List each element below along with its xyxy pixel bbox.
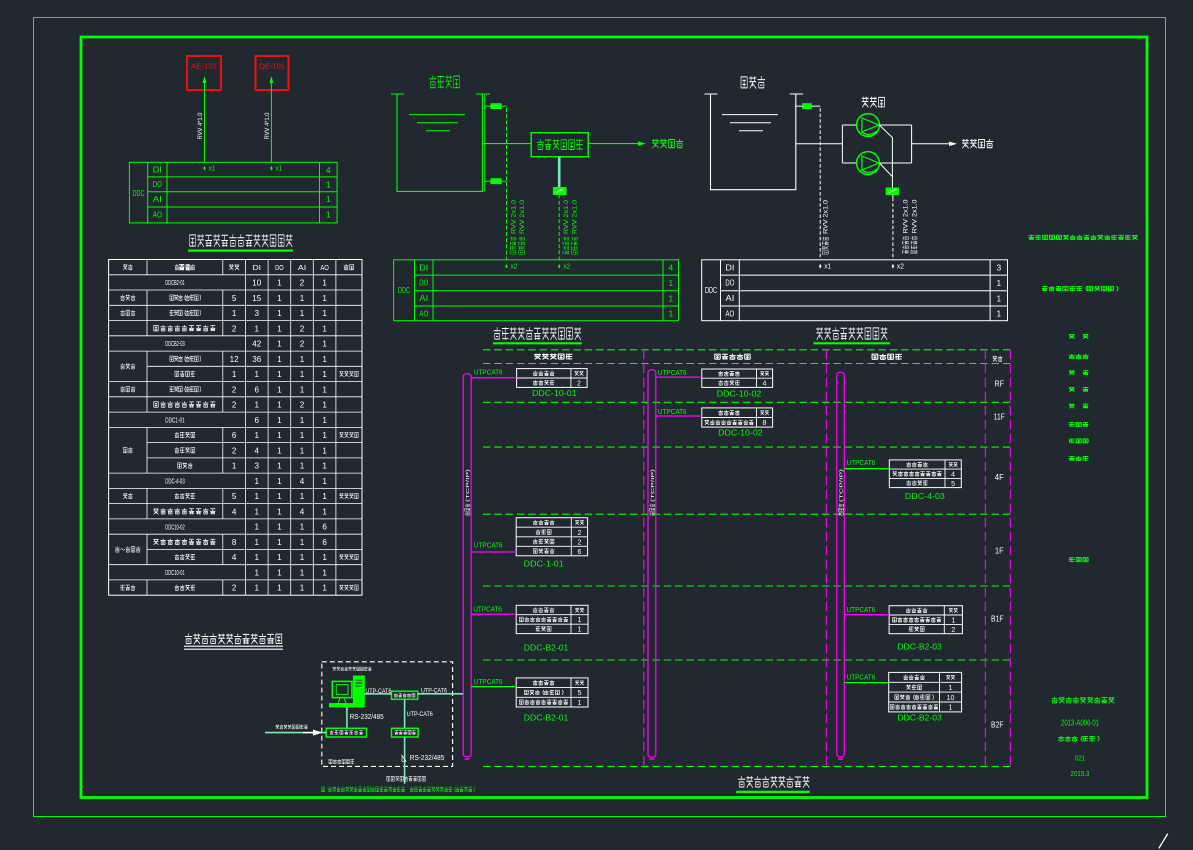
svg-text:1: 1 bbox=[326, 194, 331, 204]
svg-text:4: 4 bbox=[763, 379, 767, 388]
svg-text:RVV 2x1.0: RVV 2x1.0 bbox=[510, 200, 517, 234]
svg-text:1: 1 bbox=[996, 309, 1001, 319]
svg-text:1: 1 bbox=[578, 698, 582, 707]
svg-text:UTPCAT6: UTPCAT6 bbox=[847, 672, 876, 681]
svg-text:5: 5 bbox=[232, 491, 237, 501]
svg-text:DDC-10-02: DDC-10-02 bbox=[718, 427, 763, 437]
svg-text:x2: x2 bbox=[563, 263, 570, 270]
svg-text:1: 1 bbox=[277, 491, 282, 501]
svg-text:AO: AO bbox=[419, 310, 428, 319]
svg-text:4: 4 bbox=[300, 506, 305, 516]
svg-text:6: 6 bbox=[232, 430, 237, 440]
svg-text:1: 1 bbox=[255, 537, 260, 547]
svg-text:2: 2 bbox=[578, 537, 582, 546]
svg-text:DI: DI bbox=[153, 166, 162, 175]
svg-text:UTPCAT6: UTPCAT6 bbox=[474, 677, 503, 686]
svg-text:DDC: DDC bbox=[398, 286, 410, 295]
svg-text:UTPCAT6: UTPCAT6 bbox=[847, 458, 876, 467]
svg-text:1: 1 bbox=[277, 522, 282, 532]
svg-text:1: 1 bbox=[255, 430, 260, 440]
svg-text:UTPCAT6: UTPCAT6 bbox=[474, 368, 503, 377]
svg-text:AI: AI bbox=[298, 263, 307, 272]
svg-text:DDC1-01: DDC1-01 bbox=[165, 416, 185, 425]
svg-text:1: 1 bbox=[322, 461, 327, 471]
svg-text:DI: DI bbox=[253, 263, 262, 272]
svg-text:3: 3 bbox=[255, 461, 260, 471]
svg-text:1: 1 bbox=[255, 491, 260, 501]
svg-text:4: 4 bbox=[300, 476, 305, 486]
svg-text:1: 1 bbox=[255, 400, 260, 410]
svg-text:36: 36 bbox=[252, 354, 261, 364]
svg-text:1: 1 bbox=[277, 445, 282, 455]
svg-text:1: 1 bbox=[322, 506, 327, 516]
svg-text:1: 1 bbox=[322, 568, 327, 578]
svg-text:1: 1 bbox=[949, 683, 953, 692]
svg-text:RVV 4*1.0: RVV 4*1.0 bbox=[264, 112, 271, 140]
svg-text:AE-101: AE-101 bbox=[191, 61, 217, 70]
svg-text:1: 1 bbox=[255, 506, 260, 516]
svg-text:1: 1 bbox=[300, 583, 305, 593]
svg-text:1: 1 bbox=[277, 278, 282, 288]
svg-text:1: 1 bbox=[277, 537, 282, 547]
svg-text:8: 8 bbox=[232, 537, 237, 547]
svg-text:UTP-CAT6: UTP-CAT6 bbox=[365, 688, 391, 695]
svg-text:DO: DO bbox=[725, 279, 734, 288]
svg-text:3: 3 bbox=[996, 263, 1001, 273]
svg-text:DO: DO bbox=[275, 263, 284, 272]
svg-text:1: 1 bbox=[277, 369, 282, 379]
svg-text:1: 1 bbox=[322, 552, 327, 562]
svg-text:RVV 2x1.0: RVV 2x1.0 bbox=[572, 200, 579, 234]
svg-text:4: 4 bbox=[326, 165, 331, 175]
svg-text:x2: x2 bbox=[897, 263, 904, 270]
svg-text:DDC-4-03: DDC-4-03 bbox=[165, 477, 185, 486]
svg-text:DDC-10-01: DDC-10-01 bbox=[532, 388, 577, 398]
svg-text:2: 2 bbox=[300, 278, 305, 288]
svg-text:1: 1 bbox=[322, 384, 327, 394]
svg-text:1: 1 bbox=[300, 430, 305, 440]
svg-text:DDC10-02: DDC10-02 bbox=[165, 522, 185, 531]
svg-text:1: 1 bbox=[996, 278, 1001, 288]
svg-text:DDC-1-01: DDC-1-01 bbox=[524, 558, 564, 568]
svg-text:DDC-B2-03: DDC-B2-03 bbox=[897, 713, 942, 723]
svg-text:2: 2 bbox=[232, 583, 237, 593]
svg-text:4: 4 bbox=[232, 506, 237, 516]
svg-text:AI: AI bbox=[725, 294, 734, 303]
svg-text:B1F: B1F bbox=[991, 614, 1004, 624]
svg-text:6: 6 bbox=[322, 537, 327, 547]
svg-text:2015.3: 2015.3 bbox=[1071, 771, 1090, 778]
svg-text:UTPCAT6: UTPCAT6 bbox=[474, 541, 503, 550]
svg-text:2: 2 bbox=[577, 379, 581, 388]
svg-text:1: 1 bbox=[300, 491, 305, 501]
svg-text:DDC: DDC bbox=[133, 189, 145, 198]
svg-text:4F: 4F bbox=[995, 472, 1004, 482]
svg-text:1: 1 bbox=[322, 415, 327, 425]
svg-text:1: 1 bbox=[255, 583, 260, 593]
svg-text:1: 1 bbox=[322, 445, 327, 455]
svg-text:DDC: DDC bbox=[705, 286, 717, 295]
svg-text:1: 1 bbox=[322, 430, 327, 440]
svg-text:4: 4 bbox=[668, 263, 673, 273]
svg-text:1: 1 bbox=[277, 354, 282, 364]
svg-text:2: 2 bbox=[300, 339, 305, 349]
svg-text:(TCP/IP): (TCP/IP) bbox=[838, 468, 843, 502]
svg-text:10: 10 bbox=[947, 693, 955, 702]
svg-text:RVV 2x1.0: RVV 2x1.0 bbox=[823, 200, 830, 234]
svg-text:1: 1 bbox=[277, 400, 282, 410]
svg-text:DO: DO bbox=[153, 180, 162, 189]
svg-text:QE-101: QE-101 bbox=[259, 61, 285, 70]
svg-text:1: 1 bbox=[255, 568, 260, 578]
svg-text:5: 5 bbox=[578, 688, 582, 697]
svg-text:1: 1 bbox=[255, 552, 260, 562]
svg-text:6: 6 bbox=[255, 415, 260, 425]
svg-text:1: 1 bbox=[322, 354, 327, 364]
svg-text:2: 2 bbox=[232, 384, 237, 394]
svg-text:DDC-B2-01: DDC-B2-01 bbox=[524, 713, 569, 723]
svg-text:1: 1 bbox=[277, 583, 282, 593]
svg-text:1: 1 bbox=[300, 354, 305, 364]
svg-text:1: 1 bbox=[255, 323, 260, 333]
svg-text:42: 42 bbox=[252, 339, 261, 349]
svg-text:(TCP/IP): (TCP/IP) bbox=[465, 468, 470, 502]
svg-text:5: 5 bbox=[951, 479, 955, 488]
svg-text:1: 1 bbox=[277, 568, 282, 578]
svg-text:1F: 1F bbox=[995, 546, 1004, 556]
svg-text:DDC-10-02: DDC-10-02 bbox=[717, 388, 762, 398]
svg-text:1: 1 bbox=[326, 210, 331, 220]
svg-text:15: 15 bbox=[252, 293, 261, 303]
svg-text:DDCB2-01: DDCB2-01 bbox=[165, 278, 185, 287]
svg-text:1: 1 bbox=[322, 476, 327, 486]
svg-text:1: 1 bbox=[949, 703, 953, 712]
svg-text:1: 1 bbox=[255, 522, 260, 532]
svg-text:2: 2 bbox=[578, 528, 582, 537]
svg-text:1: 1 bbox=[277, 461, 282, 471]
svg-text:6: 6 bbox=[322, 522, 327, 532]
svg-text:RVV 2x1.0: RVV 2x1.0 bbox=[903, 199, 910, 233]
svg-text:RVV 2x1.0: RVV 2x1.0 bbox=[563, 200, 570, 234]
svg-text:RVV 2x1.0: RVV 2x1.0 bbox=[519, 200, 526, 234]
svg-text:1: 1 bbox=[300, 369, 305, 379]
svg-text:1: 1 bbox=[578, 625, 582, 634]
svg-text:1: 1 bbox=[300, 552, 305, 562]
svg-text:RVV 2x1.0: RVV 2x1.0 bbox=[911, 199, 918, 233]
svg-text:12: 12 bbox=[230, 354, 239, 364]
svg-text:1: 1 bbox=[300, 293, 305, 303]
svg-text:5: 5 bbox=[232, 293, 237, 303]
svg-text:2: 2 bbox=[232, 323, 237, 333]
svg-text:1: 1 bbox=[322, 400, 327, 410]
svg-text:2013-A006-01: 2013-A006-01 bbox=[1061, 718, 1099, 727]
svg-text:RS-232/485: RS-232/485 bbox=[350, 714, 384, 721]
svg-text:1: 1 bbox=[300, 445, 305, 455]
svg-text:DDC10-01: DDC10-01 bbox=[165, 568, 185, 577]
svg-text:6: 6 bbox=[255, 384, 260, 394]
svg-text:1: 1 bbox=[232, 461, 237, 471]
svg-text:2: 2 bbox=[232, 400, 237, 410]
svg-text:1: 1 bbox=[578, 615, 582, 624]
svg-text:1: 1 bbox=[996, 293, 1001, 303]
svg-text:021: 021 bbox=[1075, 755, 1085, 762]
svg-text:1: 1 bbox=[300, 308, 305, 318]
svg-text:1: 1 bbox=[300, 522, 305, 532]
svg-text:1: 1 bbox=[322, 308, 327, 318]
svg-text:1: 1 bbox=[300, 415, 305, 425]
svg-text:1: 1 bbox=[322, 278, 327, 288]
svg-text:1: 1 bbox=[255, 369, 260, 379]
svg-text:1: 1 bbox=[277, 339, 282, 349]
svg-text:10: 10 bbox=[252, 278, 261, 288]
svg-text:4: 4 bbox=[255, 445, 260, 455]
svg-text:UTP-CAT6: UTP-CAT6 bbox=[407, 711, 433, 718]
svg-text:1: 1 bbox=[232, 308, 237, 318]
svg-text:x2: x2 bbox=[511, 263, 518, 270]
svg-text:1: 1 bbox=[277, 476, 282, 486]
svg-text:1: 1 bbox=[322, 583, 327, 593]
svg-text:1: 1 bbox=[277, 415, 282, 425]
svg-text:RS-232/485: RS-232/485 bbox=[410, 755, 445, 762]
svg-text:1: 1 bbox=[300, 537, 305, 547]
svg-text:DDC-B2-01: DDC-B2-01 bbox=[524, 642, 569, 652]
svg-text:6: 6 bbox=[578, 547, 582, 556]
svg-text:UTP-CAT6: UTP-CAT6 bbox=[421, 688, 447, 695]
svg-text:1: 1 bbox=[322, 323, 327, 333]
svg-text:x1: x1 bbox=[824, 263, 831, 270]
svg-text:2: 2 bbox=[300, 323, 305, 333]
svg-text:DDC-4-03: DDC-4-03 bbox=[905, 491, 945, 501]
svg-text:3: 3 bbox=[255, 308, 260, 318]
svg-text:1: 1 bbox=[277, 308, 282, 318]
svg-text:UTPCAT6: UTPCAT6 bbox=[473, 604, 502, 613]
svg-text:x1: x1 bbox=[209, 166, 216, 173]
svg-text:1: 1 bbox=[277, 384, 282, 394]
svg-text:DDC-B2-03: DDC-B2-03 bbox=[897, 642, 942, 652]
svg-text:4: 4 bbox=[951, 470, 955, 479]
svg-text:8: 8 bbox=[763, 418, 767, 427]
svg-text:1: 1 bbox=[322, 339, 327, 349]
svg-text:1: 1 bbox=[277, 430, 282, 440]
svg-text:4: 4 bbox=[232, 552, 237, 562]
svg-text:1: 1 bbox=[277, 552, 282, 562]
svg-text:1: 1 bbox=[300, 461, 305, 471]
svg-text:2: 2 bbox=[951, 625, 955, 634]
svg-text:AO: AO bbox=[725, 310, 734, 319]
svg-text:1: 1 bbox=[300, 384, 305, 394]
svg-text:RVV 4*1.0: RVV 4*1.0 bbox=[197, 112, 204, 140]
svg-text:DI: DI bbox=[419, 263, 428, 272]
svg-text:x1: x1 bbox=[275, 166, 282, 173]
svg-text:1: 1 bbox=[322, 369, 327, 379]
svg-text:2: 2 bbox=[300, 400, 305, 410]
svg-text:1: 1 bbox=[668, 293, 673, 303]
svg-text:UTPCAT6: UTPCAT6 bbox=[658, 368, 687, 377]
svg-text:1: 1 bbox=[277, 323, 282, 333]
svg-text:2: 2 bbox=[232, 445, 237, 455]
svg-text:DI: DI bbox=[725, 263, 734, 272]
svg-text:(TCP/IP): (TCP/IP) bbox=[650, 468, 655, 502]
svg-text:AO: AO bbox=[320, 263, 329, 272]
svg-text:B2F: B2F bbox=[991, 720, 1004, 730]
svg-text:1: 1 bbox=[951, 616, 955, 625]
svg-text:1: 1 bbox=[322, 491, 327, 501]
svg-text:1: 1 bbox=[232, 369, 237, 379]
svg-text:1: 1 bbox=[326, 179, 331, 189]
svg-text:1: 1 bbox=[277, 293, 282, 303]
svg-text:AI: AI bbox=[419, 294, 428, 303]
svg-text:DDCB2-03: DDCB2-03 bbox=[165, 339, 185, 348]
svg-text:RF: RF bbox=[995, 379, 1005, 389]
svg-text:DO: DO bbox=[419, 279, 428, 288]
svg-text:1: 1 bbox=[300, 568, 305, 578]
svg-text:1: 1 bbox=[668, 309, 673, 319]
svg-text:11F: 11F bbox=[994, 412, 1005, 422]
svg-text:AI: AI bbox=[153, 195, 162, 204]
svg-text:UTPCAT6: UTPCAT6 bbox=[847, 605, 876, 614]
svg-text:AO: AO bbox=[153, 210, 162, 219]
svg-text:1: 1 bbox=[277, 506, 282, 516]
svg-text:1: 1 bbox=[322, 293, 327, 303]
svg-text:1: 1 bbox=[668, 278, 673, 288]
svg-text:UTPCAT6: UTPCAT6 bbox=[658, 407, 687, 416]
svg-text:1: 1 bbox=[255, 476, 260, 486]
